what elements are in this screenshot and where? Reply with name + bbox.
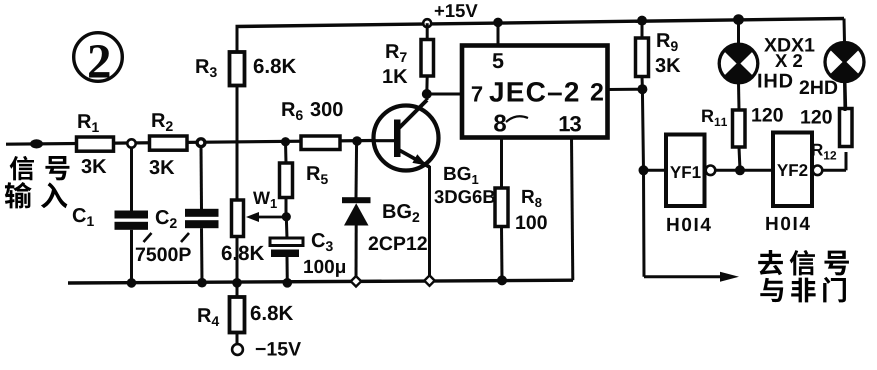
pin 5 number (493, 53, 504, 68)
capacitor C1 (115, 147, 149, 283)
node base/BG2 (352, 136, 362, 146)
capacitor C2 (185, 146, 219, 282)
label 输入 (input) (5, 182, 68, 208)
label XDX1 (764, 38, 814, 51)
resistor R9 3K (636, 21, 649, 89)
wire IC output pin2 (608, 88, 643, 91)
wire YF1 out to YF2 in (715, 169, 773, 172)
wire bottom common rail (68, 280, 573, 283)
label 1HD (758, 74, 792, 88)
wire collector to node (425, 94, 428, 100)
resistor R2 3K (150, 136, 188, 150)
op-amp U1 JEC-22 box (462, 46, 608, 138)
wire +15V top rail (236, 19, 845, 27)
wire signal input line (6, 141, 374, 145)
label R12 (812, 144, 836, 160)
pin 13 number (560, 116, 581, 132)
label R9 (657, 33, 677, 51)
label 3K (R2) (149, 160, 174, 174)
label W1 (253, 192, 277, 208)
wire pin13 to rail end (572, 138, 573, 281)
label H014 (YF1) (667, 218, 711, 231)
label X2 (775, 54, 802, 67)
capacitor C3 100u electrolytic (270, 217, 303, 283)
potentiometer W1 6.8K (232, 200, 284, 237)
wire emitter to rail (428, 166, 431, 281)
resistor R6 300 (301, 136, 340, 150)
node R11 bottom (735, 165, 745, 175)
pin 8 number (494, 115, 528, 132)
label 6.8K (W1) (222, 246, 264, 261)
label 120 (R11) (752, 108, 783, 122)
label -15V (256, 342, 301, 356)
YF1 output bubble (706, 166, 716, 176)
terminal +15V (open circle on rail) (423, 19, 431, 27)
label 去信号 (to signal) (758, 250, 849, 275)
label R7 (386, 44, 406, 62)
pin 7 number (472, 86, 482, 101)
resistor R3 6.8K (230, 52, 245, 86)
node C3 bottom (283, 278, 293, 288)
node lamp1 top on rail (733, 14, 744, 25)
diode BG2 2CP12 (342, 141, 371, 281)
figure number 2 (circled) (74, 33, 123, 82)
node W1/R4 on rail (232, 278, 242, 288)
node after R1 (open) (127, 139, 135, 147)
node BG2 bottom (open) (351, 276, 361, 286)
label R5 (307, 166, 327, 184)
label R2 (152, 113, 172, 131)
node after R2 (197, 139, 205, 147)
node input junction blob (30, 139, 43, 148)
label 100 (R8) (516, 215, 547, 229)
label 2CP12 (369, 236, 427, 250)
label R8 (522, 190, 541, 207)
node YF1 input (639, 165, 649, 175)
label R11 (702, 110, 727, 126)
resistor R5 (280, 142, 293, 217)
node R8 bottom (497, 275, 507, 285)
resistor R8 100 (pin 8) (495, 138, 508, 281)
label C2 (156, 210, 177, 228)
label 3K (R9) (655, 58, 680, 72)
wire R3 top corner (236, 27, 239, 53)
label R3 (196, 59, 216, 77)
wire R3 bottom to W1 (236, 86, 239, 201)
label C1 (73, 208, 94, 226)
node C1 bottom (127, 278, 137, 288)
label R4 (198, 308, 219, 326)
label 100u (C3) (304, 260, 345, 277)
resistor R4 6.8K (230, 283, 245, 345)
node pin5 on rail (493, 18, 503, 28)
transistor BG1 3DG6B (374, 100, 439, 171)
label H014 (YF2) (766, 217, 810, 230)
label 1K (R7) (383, 69, 407, 83)
terminal -15V (232, 344, 243, 355)
label 2HD (800, 80, 838, 94)
resistor R12 120 (840, 82, 853, 147)
resistor R7 1K (421, 23, 434, 94)
lamp 2HD (XD lamp) (825, 43, 864, 112)
wire YF1 input (644, 169, 667, 172)
wire YF2 out to R12 (822, 152, 846, 170)
label JEC-2 2 (489, 82, 602, 102)
wire to NAND gate with arrow (644, 272, 739, 282)
wire pin5 (497, 22, 500, 45)
label 6.8K (R4) (251, 306, 293, 321)
wire pin7 to IC (427, 93, 462, 96)
label C3 (312, 233, 333, 251)
lamp 1HD (XD lamp) (719, 20, 758, 110)
label 300 (R6) (310, 102, 342, 116)
label +15V (435, 4, 478, 17)
label 120 (R12) (801, 110, 832, 124)
wire output bus down (642, 89, 644, 277)
label 3DG6B (434, 190, 494, 203)
label R6 (282, 102, 302, 120)
node C2 bottom (197, 278, 207, 288)
wire W1 bottom to rail (236, 237, 239, 284)
wire rail corner to lamp2 (843, 19, 847, 43)
node R9 top on rail (637, 16, 647, 26)
label 3K (R1) (81, 159, 106, 173)
gate YF1 H014 (666, 135, 705, 207)
node collector/R7/pin7 (422, 89, 432, 99)
YF2 output bubble (813, 166, 823, 176)
node emitter bottom (open) (424, 275, 434, 285)
label BG1 (444, 167, 478, 184)
label 6.8K (R3) (254, 59, 296, 74)
resistor R1 3K (77, 137, 114, 151)
node wiper/R5/C3 (282, 212, 291, 221)
label R1 (78, 114, 98, 132)
label 信号 (signal) (10, 156, 70, 181)
label 7500P (C1 C2 value) (136, 233, 191, 261)
gate YF2 H014 (773, 133, 812, 207)
label BG2 (383, 204, 419, 222)
label 与非门 (NAND gate) (760, 277, 846, 303)
node output/R9 (637, 84, 647, 94)
node R5 top (281, 137, 290, 146)
resistor R11 120 (733, 110, 746, 170)
